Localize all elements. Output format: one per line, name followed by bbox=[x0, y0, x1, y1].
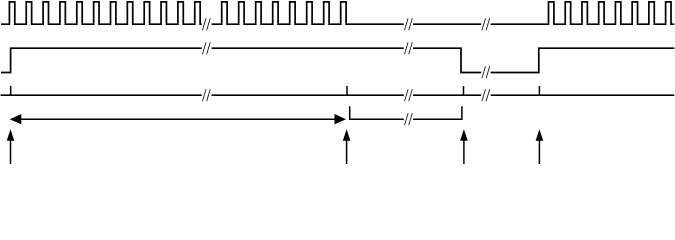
measurement bracket right part bbox=[413, 106, 463, 119]
up arrow 2 head bbox=[343, 129, 351, 141]
data signal high middle segment bbox=[212, 47, 404, 49]
tick mark D on reference line bbox=[538, 86, 540, 95]
break slashes on reference line at middle column bbox=[405, 89, 413, 101]
break slashes on reference line at left column bbox=[202, 89, 210, 101]
up arrow 1 shaft bbox=[10, 138, 12, 164]
tick mark A on reference line bbox=[10, 86, 12, 95]
clock waveform low segment between breaks bbox=[413, 23, 481, 25]
break slashes on clock at left column bbox=[202, 18, 210, 30]
break slashes on reference line at right column bbox=[482, 89, 490, 101]
break slashes on data low at right column bbox=[482, 66, 490, 78]
break slashes on clock at middle column bbox=[405, 18, 413, 30]
data signal rising edge and high to right bbox=[491, 48, 675, 72]
data signal falling edge and low segment bbox=[413, 48, 481, 72]
break slashes on data high at left column bbox=[202, 42, 210, 54]
tick mark B on reference line bbox=[346, 86, 348, 95]
reference line segment 2 bbox=[212, 94, 404, 96]
break slashes on data high at middle column bbox=[405, 42, 413, 54]
break slashes on clock at right column bbox=[482, 18, 490, 30]
clock waveform segment 1 (12 pulses) bbox=[1, 2, 202, 24]
double arrow left head bbox=[10, 114, 21, 124]
tick mark C on reference line bbox=[463, 86, 465, 95]
up arrow 3 shaft bbox=[463, 138, 465, 164]
reference line segment 3 bbox=[413, 94, 481, 96]
up arrow 4 shaft bbox=[538, 138, 540, 164]
up arrow 3 head bbox=[460, 129, 468, 141]
data signal left (low then high) bbox=[1, 48, 202, 72]
up arrow 4 head bbox=[536, 129, 544, 141]
clock waveform segment 2 (8 pulses then low) bbox=[212, 2, 404, 24]
break slashes on measurement bracket at middle column bbox=[405, 113, 413, 125]
measurement bracket left part bbox=[349, 106, 404, 119]
clock waveform segment 3 (8 pulses) bbox=[491, 2, 675, 24]
measurement double arrow shaft bbox=[20, 118, 337, 120]
reference line segment 4 bbox=[491, 94, 675, 96]
up arrow 1 head bbox=[7, 129, 15, 141]
double arrow right head bbox=[335, 114, 347, 124]
up arrow 2 shaft bbox=[346, 138, 348, 164]
reference line segment 1 bbox=[1, 94, 202, 96]
